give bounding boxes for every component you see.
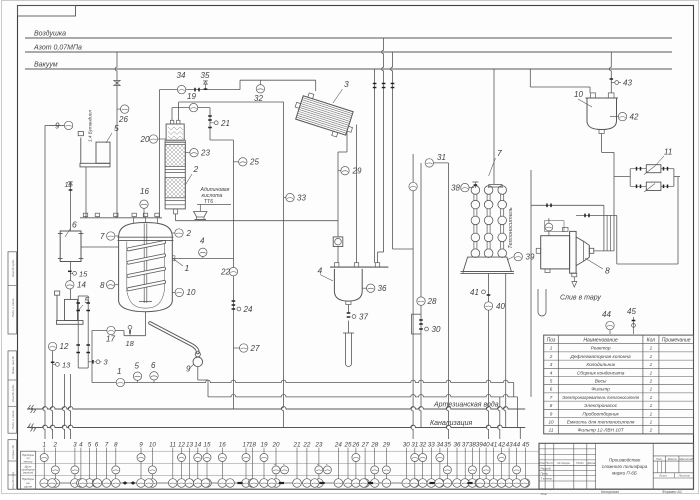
svg-text:25: 25 <box>343 442 352 449</box>
svg-text:16: 16 <box>219 442 227 449</box>
svg-text:Изм: Изм <box>539 461 545 465</box>
svg-text:Производство: Производство <box>609 458 641 463</box>
svg-text:Подп. и дата: Подп. и дата <box>11 410 15 429</box>
svg-text:20: 20 <box>140 135 150 144</box>
svg-text:Лист: Лист <box>658 474 667 478</box>
svg-text:18: 18 <box>126 339 135 348</box>
svg-text:2: 2 <box>649 428 653 433</box>
svg-text:31: 31 <box>411 442 418 449</box>
svg-text:1: 1 <box>650 346 653 351</box>
svg-text:5: 5 <box>135 362 140 371</box>
svg-text:26: 26 <box>118 115 128 124</box>
svg-text:11: 11 <box>549 428 554 433</box>
svg-text:28: 28 <box>427 297 437 306</box>
svg-text:Справ. №: Справ. № <box>11 444 15 458</box>
svg-text:5: 5 <box>114 123 119 133</box>
svg-text:19: 19 <box>260 442 268 449</box>
svg-text:22: 22 <box>302 442 311 449</box>
svg-text:Слив в тару: Слив в тару <box>560 295 601 302</box>
svg-text:Масштаб: Масштаб <box>679 457 693 461</box>
svg-text:1: 1 <box>117 367 121 376</box>
svg-text:13: 13 <box>186 442 194 449</box>
svg-text:Примечание: Примечание <box>662 338 691 344</box>
svg-text:Электронагреватель теплоносите: Электронагреватель теплоносителя <box>562 395 640 400</box>
svg-text:Реактор: Реактор <box>591 346 611 352</box>
svg-text:6: 6 <box>72 220 77 230</box>
svg-text:45: 45 <box>522 442 530 449</box>
svg-text:Взам. инв.№: Взам. инв.№ <box>11 355 15 373</box>
svg-text:1: 1 <box>650 395 653 400</box>
svg-text:Инв.№ подл.: Инв.№ подл. <box>11 471 15 489</box>
svg-text:Листов: Листов <box>678 474 690 478</box>
svg-text:8: 8 <box>114 442 118 449</box>
svg-text:12: 12 <box>60 342 69 351</box>
svg-text:9: 9 <box>550 411 553 416</box>
svg-text:1: 1 <box>650 403 653 408</box>
svg-text:25: 25 <box>249 158 259 167</box>
svg-text:1: 1 <box>650 411 653 416</box>
svg-text:6: 6 <box>550 387 553 392</box>
svg-text:35: 35 <box>201 71 210 80</box>
svg-text:Разраб.: Разраб. <box>541 467 552 471</box>
svg-text:41: 41 <box>470 288 479 297</box>
svg-text:6: 6 <box>95 442 99 449</box>
svg-text:28: 28 <box>370 442 379 449</box>
svg-text:Вакуум: Вакуум <box>34 62 58 69</box>
svg-text:43: 43 <box>506 442 514 449</box>
svg-text:34: 34 <box>436 442 444 449</box>
svg-text:1: 1 <box>185 263 190 273</box>
svg-text:4: 4 <box>79 442 83 449</box>
svg-text:Пробоотборник: Пробоотборник <box>582 411 619 417</box>
svg-text:16: 16 <box>140 187 149 196</box>
svg-text:11: 11 <box>170 442 177 449</box>
svg-text:Емкость для теплоносителя: Емкость для теплоносителя <box>567 420 635 426</box>
svg-text:щите: щите <box>24 485 32 489</box>
svg-text:сложного полиэфира: сложного полиэфира <box>602 464 648 469</box>
svg-text:9: 9 <box>55 122 60 131</box>
svg-text:Дефлегматорная колонна: Дефлегматорная колонна <box>570 354 631 360</box>
svg-text:Формат А1: Формат А1 <box>662 490 682 494</box>
svg-text:Лист: Лист <box>545 461 554 465</box>
svg-text:23: 23 <box>200 149 210 158</box>
svg-text:29: 29 <box>382 442 391 449</box>
svg-text:24: 24 <box>334 442 343 449</box>
svg-text:18: 18 <box>249 442 257 449</box>
svg-text:Теплоноситель: Теплоноситель <box>508 207 514 249</box>
svg-text:4: 4 <box>318 266 323 276</box>
svg-text:44: 44 <box>602 310 611 319</box>
svg-text:1: 1 <box>650 370 653 375</box>
svg-text:2: 2 <box>193 164 199 174</box>
svg-text:31: 31 <box>437 153 446 162</box>
svg-text:7: 7 <box>105 442 109 449</box>
svg-text:42: 42 <box>630 113 639 122</box>
svg-text:10: 10 <box>548 420 554 425</box>
svg-text:15: 15 <box>79 269 88 278</box>
svg-text:марки П-6Б: марки П-6Б <box>612 471 637 476</box>
svg-text:32: 32 <box>419 442 427 449</box>
svg-text:32: 32 <box>254 94 263 103</box>
svg-text:Подп.: Подп. <box>576 461 584 465</box>
svg-text:1: 1 <box>550 346 553 351</box>
svg-text:Фильтр: Фильтр <box>591 387 610 393</box>
svg-text:Инв.№ дубл.: Инв.№ дубл. <box>11 384 15 402</box>
svg-text:Наименование: Наименование <box>583 338 618 344</box>
svg-text:2: 2 <box>649 379 653 384</box>
svg-text:Фильтр 12-ЛВН 10Т: Фильтр 12-ЛВН 10Т <box>578 428 625 434</box>
svg-text:1: 1 <box>650 354 653 359</box>
svg-text:11: 11 <box>664 148 672 157</box>
svg-text:№ докум.: № докум. <box>557 461 570 465</box>
svg-text:2: 2 <box>53 442 58 449</box>
svg-text:45: 45 <box>627 307 636 316</box>
svg-text:месту: месту <box>24 459 33 463</box>
svg-text:Инв.№ дубл.: Инв.№ дубл. <box>11 259 15 277</box>
svg-text:22: 22 <box>220 268 230 277</box>
svg-text:14: 14 <box>194 442 202 449</box>
svg-text:9: 9 <box>186 365 191 374</box>
svg-text:36: 36 <box>378 284 387 293</box>
svg-text:Т.контр.: Т.контр. <box>541 477 553 481</box>
svg-text:14: 14 <box>77 281 86 290</box>
svg-text:21: 21 <box>292 442 300 449</box>
svg-text:Н.контр.: Н.контр. <box>541 487 554 491</box>
svg-text:2: 2 <box>186 229 192 238</box>
svg-text:12: 12 <box>178 442 186 449</box>
svg-text:8: 8 <box>605 266 610 276</box>
svg-text:15: 15 <box>203 442 211 449</box>
svg-text:ТТ6: ТТ6 <box>204 199 213 205</box>
svg-text:2: 2 <box>549 354 553 359</box>
svg-text:7: 7 <box>497 148 502 158</box>
svg-text:Сборник конденсата: Сборник конденсата <box>577 370 625 376</box>
svg-text:42: 42 <box>498 442 506 449</box>
svg-text:Пров.: Пров. <box>541 472 549 476</box>
svg-text:11: 11 <box>65 180 73 189</box>
svg-text:Копировал: Копировал <box>601 490 619 494</box>
svg-text:40: 40 <box>496 302 505 311</box>
svg-text:35: 35 <box>444 442 452 449</box>
svg-text:20: 20 <box>271 442 280 449</box>
svg-text:30: 30 <box>432 325 441 334</box>
svg-text:5: 5 <box>550 379 553 384</box>
svg-text:3: 3 <box>344 79 349 89</box>
svg-text:38: 38 <box>451 184 460 193</box>
svg-text:24: 24 <box>243 305 253 314</box>
svg-text:10: 10 <box>574 90 583 99</box>
svg-text:4: 4 <box>550 370 553 375</box>
svg-text:33: 33 <box>297 194 306 203</box>
svg-text:26: 26 <box>351 442 360 449</box>
svg-text:29: 29 <box>352 167 362 176</box>
svg-text:1: 1 <box>650 420 653 425</box>
svg-text:Поз: Поз <box>547 338 556 344</box>
svg-text:4: 4 <box>200 237 205 246</box>
svg-text:8: 8 <box>100 281 105 290</box>
svg-text:(пульт): (пульт) <box>23 471 34 475</box>
svg-text:40: 40 <box>483 442 491 449</box>
svg-text:7: 7 <box>550 395 553 400</box>
svg-text:Холодильник: Холодильник <box>585 362 616 368</box>
svg-text:44: 44 <box>513 442 521 449</box>
svg-text:Подп. и дата: Подп. и дата <box>11 298 15 317</box>
svg-text:Лит.: Лит. <box>655 457 663 461</box>
svg-text:41: 41 <box>490 442 497 449</box>
svg-text:30: 30 <box>403 442 411 449</box>
svg-text:19: 19 <box>187 92 196 101</box>
svg-text:27: 27 <box>250 344 260 353</box>
svg-text:34: 34 <box>177 71 186 80</box>
svg-text:39: 39 <box>526 253 535 262</box>
svg-text:Электронасос: Электронасос <box>584 403 618 409</box>
svg-text:1: 1 <box>42 442 46 449</box>
svg-text:8: 8 <box>550 403 553 408</box>
svg-text:5: 5 <box>88 442 92 449</box>
svg-text:1: 1 <box>650 387 653 392</box>
svg-text:10: 10 <box>149 442 157 449</box>
svg-text:3: 3 <box>550 362 553 367</box>
svg-text:Весы: Весы <box>595 379 607 385</box>
svg-text:36: 36 <box>453 442 461 449</box>
svg-text:Воздушка: Воздушка <box>34 30 66 38</box>
svg-text:7: 7 <box>100 232 105 241</box>
svg-text:3: 3 <box>73 442 77 449</box>
svg-text:33: 33 <box>428 442 436 449</box>
svg-text:21: 21 <box>220 119 230 128</box>
svg-text:9: 9 <box>139 442 143 449</box>
svg-text:1,4 Бутандиол: 1,4 Бутандиол <box>88 110 93 142</box>
svg-text:27: 27 <box>361 442 370 449</box>
svg-text:1: 1 <box>650 362 653 367</box>
svg-text:13: 13 <box>62 360 71 369</box>
svg-text:10: 10 <box>187 288 196 297</box>
svg-text:Кол: Кол <box>647 338 656 344</box>
svg-text:Азот 0,07МПа: Азот 0,07МПа <box>33 45 82 52</box>
svg-text:6: 6 <box>151 361 156 370</box>
svg-text:Масса: Масса <box>668 457 677 461</box>
svg-text:17: 17 <box>106 335 115 344</box>
svg-text:37: 37 <box>359 313 368 322</box>
svg-text:Канализация: Канализация <box>430 420 472 427</box>
svg-text:Дата: Дата <box>586 461 595 465</box>
svg-text:43: 43 <box>623 79 632 88</box>
svg-text:23: 23 <box>314 442 323 449</box>
